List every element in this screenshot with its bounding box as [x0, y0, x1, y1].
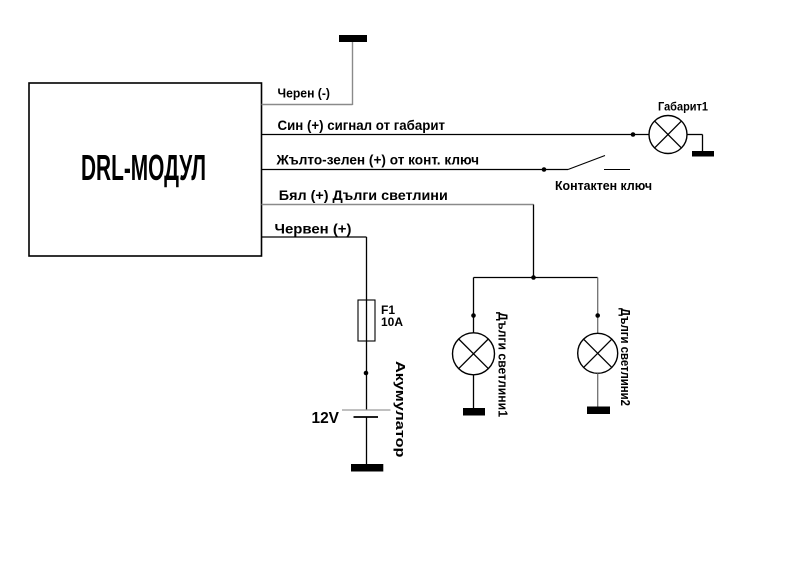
node: junction dot right branch	[595, 313, 600, 318]
wire: left branch down to lamp1	[473, 278, 475, 334]
ground GND5 (battery)	[351, 464, 383, 472]
wire: battery to ground	[366, 417, 368, 464]
wire: Син (+) from module to lamp	[262, 134, 650, 136]
wire: Черен (-) horizontal from module	[262, 104, 353, 106]
svg-text:12V: 12V	[312, 410, 340, 427]
svg-text:Бял (+) Дълги светлини: Бял (+) Дълги светлини	[279, 188, 448, 203]
wire: Червен (+) horizontal from module	[262, 236, 367, 238]
DRL module box U1	[29, 83, 262, 256]
wire: lamp2 to ground	[597, 373, 599, 406]
lamp Дълги светлини2 circle	[578, 333, 618, 373]
svg-text:Син (+) сигнал от габарит: Син (+) сигнал от габарит	[278, 118, 446, 133]
wire: Бял vertical drop	[533, 205, 535, 278]
svg-text:Дълги светлини2: Дълги светлини2	[618, 308, 633, 406]
wire: split bus horizontal	[474, 277, 598, 279]
node: junction dot above battery	[364, 371, 369, 376]
svg-text:DRL-МОДУЛ: DRL-МОДУЛ	[81, 147, 206, 188]
ground GND2 (Габарит1)	[692, 151, 714, 157]
node: junction dot at split	[531, 275, 536, 280]
ground GND1 (top, black bar)	[339, 35, 367, 42]
node: junction dot on Жълто-зелен wire	[542, 167, 547, 172]
lamp Дълги светлини2 X stroke 1	[584, 339, 612, 367]
fuse F1 body	[358, 300, 375, 341]
lamp Дълги светлини1 X stroke 2	[459, 339, 489, 369]
svg-text:Червен (+): Червен (+)	[275, 221, 352, 236]
svg-text:Контактен ключ: Контактен ключ	[555, 179, 652, 193]
node: junction dot left branch	[471, 313, 476, 318]
lamp Дълги светлини1 X stroke 1	[459, 339, 489, 369]
switch S1 blade (open)	[568, 156, 605, 170]
lamp Дълги светлини2 X stroke 2	[584, 339, 612, 367]
lamp Габарит1 X stroke 2	[655, 121, 682, 148]
svg-text:Дълги светлини1: Дълги светлини1	[496, 312, 511, 417]
wire: Черен (-) vertical up to ground	[352, 41, 354, 105]
ground GND4 (lamp2)	[587, 407, 610, 415]
wire: lamp1 to ground	[473, 375, 475, 408]
switch S1 fixed contact	[604, 169, 630, 171]
svg-text:Габарит1: Габарит1	[658, 101, 709, 113]
wire: Жълто-зелен (+) from module to switch	[262, 169, 569, 171]
battery BT1 positive plate (long)	[342, 409, 391, 411]
ground GND3 (lamp1)	[463, 408, 485, 416]
svg-text:Акумулатор: Акумулатор	[393, 361, 408, 458]
wire: right branch down to lamp2	[597, 278, 599, 334]
lamp Габарит1 circle	[649, 116, 687, 154]
svg-text:10A: 10A	[381, 315, 403, 329]
battery BT1 negative plate (short)	[354, 416, 379, 418]
node: junction dot on Син wire	[631, 132, 636, 137]
lamp Габарит1 X stroke 1	[655, 121, 682, 148]
svg-text:Жълто-зелен (+) от конт. ключ: Жълто-зелен (+) от конт. ключ	[275, 152, 479, 167]
wire: lamp Габарит1 to ground horizontal	[687, 134, 703, 136]
svg-text:Черен (-): Черен (-)	[278, 86, 331, 101]
wire: Червен vertical down through fuse to battery	[366, 237, 368, 410]
lamp Дълги светлини1 circle	[453, 333, 495, 375]
wire: lamp Габарит1 ground drop	[702, 135, 704, 152]
wire: Бял (+) horizontal from module	[262, 204, 534, 206]
